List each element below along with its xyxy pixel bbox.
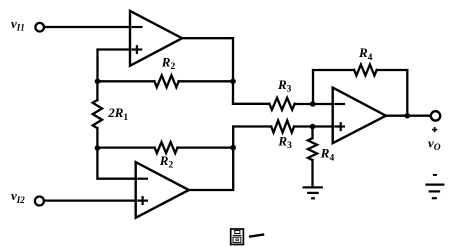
wire R4 vertical top lead — [311, 127, 313, 139]
wire top R2 rail left segment — [98, 80, 155, 82]
wire from corner to resistor R3 top — [233, 103, 269, 105]
resistor 2R1 (vertical between nodes) — [93, 100, 102, 128]
op-amp U3 — [333, 88, 386, 144]
terminal vO — [431, 111, 440, 120]
wire top R2 rail right segment — [179, 80, 233, 82]
node F junction dot (U3 noninverting) — [310, 124, 316, 130]
ground (output reference) — [425, 185, 444, 199]
wire 2R1 top lead — [96, 81, 98, 100]
node E junction dot (U3 inverting) — [310, 101, 316, 107]
node C junction dot (U1 output / R2) — [230, 79, 236, 85]
resistor R4 (feedback of U3) — [354, 65, 377, 76]
wire bottom R2 rail left segment — [97, 146, 154, 148]
resistor R2 (bottom feedback of U2) — [155, 142, 178, 153]
node D junction dot (U2 output / R2) — [230, 145, 236, 151]
wire vI1 to op-amp U1 inverting input — [44, 26, 130, 28]
terminal vI1 — [35, 23, 44, 32]
node G junction dot (output) — [405, 113, 411, 119]
wire R3 bottom to U3 noninverting input — [294, 125, 345, 127]
wire U1 output down to top R3 rail — [182, 38, 233, 104]
wire from corner to resistor R3 bottom — [233, 125, 271, 127]
resistor R2 (top feedback of U1) — [154, 75, 178, 87]
wire bottom R2 rail right segment — [178, 146, 234, 148]
wire U2 output up to bottom R3 rail — [189, 127, 233, 191]
label + output polarity — [432, 127, 437, 132]
wire vI2 to U2 noninverting input — [44, 199, 136, 201]
wire U1 noninverting input to node A — [98, 50, 131, 82]
op-amp U1 — [130, 11, 182, 66]
wire R4 feedback right drop to output — [377, 70, 408, 116]
wire R4 bottom lead to ground — [311, 160, 313, 186]
wire 2R1 bottom lead — [96, 128, 98, 148]
op-amp U2 — [136, 162, 189, 218]
caption 圖一 — [231, 229, 265, 245]
resistor R3 (bottom) — [271, 121, 294, 133]
wire node B down to U2 inverting input — [97, 148, 147, 179]
node A junction dot — [95, 79, 101, 85]
ground (below R4) — [303, 187, 323, 198]
resistor R3 (top) — [269, 98, 294, 110]
wire R3 top to U3 inverting input — [295, 103, 345, 105]
terminal vI2 — [35, 197, 44, 206]
wire U3 output to terminal vO — [386, 115, 431, 117]
node B junction dot — [95, 145, 101, 151]
label - output polarity — [433, 174, 437, 176]
wire R4 feedback left riser — [313, 70, 354, 104]
resistor R4 (to ground) — [308, 138, 317, 160]
